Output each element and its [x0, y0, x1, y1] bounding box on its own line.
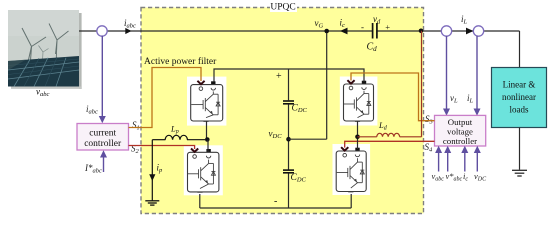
svg-text:vDC: vDC [474, 171, 487, 183]
svg-text:-: - [361, 22, 364, 32]
measurement circle i_L [473, 26, 483, 36]
svg-text:Linear &: Linear & [503, 80, 536, 90]
ground (loads) [512, 170, 527, 176]
svg-text:Output: Output [448, 117, 473, 127]
svg-text:S1: S1 [132, 120, 140, 132]
svg-text:nonlinear: nonlinear [502, 92, 536, 102]
svg-text:iL: iL [461, 14, 468, 26]
gate arrow S2 [191, 149, 198, 152]
Output voltage controller box [435, 115, 486, 146]
svg-text:Active power filter: Active power filter [144, 56, 217, 67]
v_G dot [324, 29, 329, 34]
node where L_d joins load line [419, 29, 424, 34]
IGBT module Q4 (bottom-right) [333, 144, 371, 195]
IGBT module Q2 (bottom-left) [184, 145, 223, 195]
wind turbine 1 (large, left) [22, 28, 46, 75]
svg-text:vabc: vabc [432, 171, 445, 183]
i_c arrow [340, 28, 348, 35]
wire midpoint to v_G vertical [289, 138, 327, 140]
ground (APF) [145, 201, 159, 205]
- DC bus [200, 207, 351, 209]
wire S4 (red) [345, 141, 435, 147]
UPQC dashed yellow box [141, 8, 424, 214]
gate arrow S3 [347, 80, 354, 83]
gate arrow S1 [197, 81, 204, 84]
input arrowheads into output voltage controller [435, 146, 481, 153]
svg-text:iabc: iabc [124, 18, 136, 30]
leg: top-right IGBT bottom to junction [357, 121, 359, 149]
L_d inductor [358, 31, 422, 137]
junction dot (left leg) [205, 137, 210, 142]
L_p inductor [152, 135, 205, 139]
i_abc arrow [125, 28, 131, 34]
solar panel field [8, 56, 79, 87]
svg-text:iL: iL [467, 93, 474, 105]
leg: junction to bottom-left IGBT [207, 140, 209, 153]
svg-text:+: + [276, 71, 282, 82]
svg-text:loads: loads [510, 105, 529, 115]
wire loads to ground [519, 128, 521, 170]
wind turbine 2 (right) [49, 24, 69, 67]
gate arrow S4 [341, 147, 348, 150]
middle leg [288, 105, 290, 170]
svg-text:controller: controller [443, 136, 477, 146]
svg-text:current: current [89, 129, 116, 139]
photo of wind turbines and solar panels [8, 10, 82, 89]
svg-text:+: + [385, 22, 390, 32]
v_DC node dot [286, 137, 291, 142]
wire S1 (orange) [129, 68, 202, 128]
wire down to loads [519, 31, 521, 68]
svg-text:ic: ic [463, 171, 468, 183]
right leg to bus [350, 194, 352, 208]
svg-text:vL: vL [450, 93, 458, 105]
leg: top-left IGBT bottom to junction [206, 121, 208, 140]
purple stem from circle to current controller [101, 36, 103, 118]
capacitor C_DC (top) [283, 100, 294, 102]
I*_abc input arrow [103, 156, 105, 172]
measurement circle v_L [441, 26, 451, 36]
output controller bottom inputs [439, 152, 478, 172]
IGBT module Q3 (top-right) [340, 77, 378, 126]
v_L stem to output controller [446, 36, 448, 110]
svg-text:controller: controller [84, 139, 122, 149]
junction dot (right leg) [355, 135, 360, 140]
i_L arrow [466, 28, 473, 35]
wind turbine 3 (small, middle) [39, 46, 49, 62]
svg-text:v*abc: v*abc [446, 171, 463, 183]
svg-text:I*abc: I*abc [84, 163, 102, 175]
left leg to bus [199, 194, 201, 208]
+ DC bus [214, 69, 364, 82]
svg-text:UPQC: UPQC [270, 3, 295, 13]
UPQC label [270, 0, 297, 12]
IGBT module Q1 (top-left) [187, 77, 226, 126]
svg-text:iabc: iabc [86, 104, 98, 116]
i_L stem to output controller [476, 36, 478, 110]
C_DC leg top [288, 69, 290, 100]
wire S2 (red) [129, 146, 195, 150]
svg-text:S4: S4 [425, 142, 434, 154]
series capacitor C_d [372, 23, 374, 39]
capacitor C_DC (bottom) [283, 169, 294, 171]
v_G node vertical to DC midpoint [326, 31, 328, 139]
current controller box [77, 124, 129, 151]
i_p branch down to ground [151, 140, 153, 201]
main grid wire [79, 30, 327, 32]
wire S3 (orange) [351, 73, 435, 121]
voltage tap circle [97, 26, 107, 36]
bottom leg [288, 174, 290, 209]
Linear & nonlinear loads box [492, 68, 547, 128]
svg-text:voltage: voltage [447, 127, 473, 137]
svg-text:S3: S3 [425, 114, 434, 126]
svg-text:-: - [274, 196, 277, 207]
